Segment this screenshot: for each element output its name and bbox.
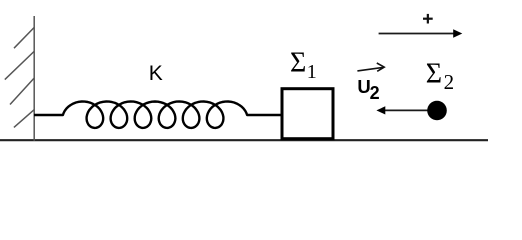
svg-text:2: 2 (370, 83, 380, 103)
ground line (0, 139, 488, 141)
svg-text:K: K (149, 62, 163, 85)
wall hatch 2 (5, 52, 34, 80)
positive direction arrow (379, 29, 463, 38)
wall hatch 1 (14, 28, 34, 49)
wall hatch 4 (14, 110, 34, 128)
velocity arrow of mass Sigma2 (376, 106, 437, 114)
mass block Sigma1 (282, 89, 333, 139)
point mass ball Sigma2 (427, 101, 447, 121)
label + (423, 14, 433, 24)
wall hatch 3 (10, 78, 34, 104)
vector arrow over u2 (357, 63, 384, 71)
svg-text:Σ2: Σ2 (426, 59, 454, 95)
wall vertical line (33, 16, 35, 141)
svg-text:Σ1: Σ1 (290, 48, 317, 84)
spring K coil (34, 102, 282, 128)
